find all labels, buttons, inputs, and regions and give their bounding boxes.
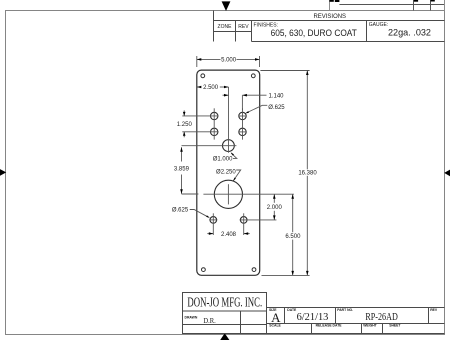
hole circle dia 1.000 (223, 140, 235, 152)
arrow 5.000 right (255, 58, 260, 61)
svg-text:Ø.625: Ø.625 (268, 105, 285, 111)
title block bottom line (183, 333, 445, 335)
corner hole bottom-right (252, 268, 256, 272)
extension 3.859 bottom (182, 193, 199, 195)
scale cell divider (311, 324, 313, 334)
dimension 6.500 line top (292, 194, 294, 232)
zone/rev header underline (214, 31, 252, 33)
leader dia 1.000 (231, 153, 237, 158)
horizontal centerline 1.000 (182, 145, 237, 147)
vertical centerline 2.500/1.000 (228, 87, 230, 153)
leader dia .625 upper (246, 105, 267, 113)
top margin fragment vertical c (430, 0, 432, 11)
upper-right hole pair bottom (239, 128, 246, 135)
dimension 2.408 line right (244, 233, 250, 235)
svg-text:RP-26AD: RP-26AD (365, 311, 397, 323)
upper-right hole pair top (239, 112, 246, 119)
drawn row underline (183, 324, 267, 326)
leader arrow dia .625 lower (206, 215, 210, 218)
title block row divider (267, 323, 445, 325)
plate outline (197, 70, 260, 275)
svg-text:2.000: 2.000 (267, 205, 283, 211)
arrow 2.408 left (209, 232, 214, 235)
svg-text:6.500: 6.500 (285, 234, 301, 240)
title block company box (183, 293, 267, 312)
svg-text:DRAWN: DRAWN (185, 315, 198, 319)
arrow 6.500 top (291, 194, 294, 199)
dimension 1.140 line right (242, 94, 266, 96)
rev/finishes divider (251, 21, 253, 42)
dimension 2.000 line top (273, 194, 275, 203)
svg-text:REVISIONS: REVISIONS (314, 13, 347, 20)
dimension 16.380 extension top (260, 70, 309, 72)
finishes/gauge divider (366, 21, 368, 42)
revisions header underline (214, 20, 445, 22)
leader dia .625 lower (190, 210, 209, 218)
arrow 2.500 right (224, 86, 229, 89)
centerline lower hole left (212, 213, 214, 235)
corner hole bottom-left (202, 268, 206, 272)
dimension 5.000 line left (197, 58, 221, 60)
svg-text:Ø1.000: Ø1.000 (213, 157, 233, 163)
svg-text:PART NO.: PART NO. (337, 308, 353, 312)
extension 2.000 bottom through lower right hole (240, 219, 277, 221)
arrow 2.408 right (244, 232, 249, 235)
size/date divider (284, 308, 286, 324)
center mark bottom (220, 333, 229, 340)
release date cell divider (361, 324, 363, 334)
date/part divider (335, 308, 337, 324)
dimension 2.408 line left (207, 233, 213, 235)
dimension 1.140 extension down (241, 95, 243, 110)
corner hole top-left (201, 74, 205, 78)
dimension 16.380 line bottom (306, 176, 308, 276)
corner hole top-right (251, 74, 255, 78)
zone/rev divider (235, 21, 237, 42)
svg-text:22ga. .032: 22ga. .032 (388, 28, 431, 38)
centerline upper-right pair (242, 108, 244, 139)
svg-text:REV: REV (430, 308, 438, 312)
arrow 16.380 top (306, 71, 309, 76)
cross tick right pair top (238, 115, 246, 117)
arrow 5.000 left (197, 58, 202, 61)
svg-text:Ø.625: Ø.625 (172, 208, 189, 214)
svg-text:2.408: 2.408 (221, 232, 237, 238)
top margin text stub c (414, 0, 418, 2)
svg-text:SHEET: SHEET (389, 324, 401, 328)
svg-text:GAUGE:: GAUGE: (369, 22, 388, 28)
weight cell divider (382, 324, 384, 334)
arrow 1.250 top outside (183, 110, 185, 116)
top margin fragment vertical a (329, 0, 331, 11)
top margin text stub a (329, 0, 333, 2)
top margin fragment line (339, 4, 444, 6)
svg-text:WEIGHT: WEIGHT (363, 324, 377, 328)
upper-left hole pair top (211, 112, 218, 119)
title block left column outline (182, 311, 184, 334)
leader dia 2.250 (233, 170, 240, 181)
svg-text:Ø2.250: Ø2.250 (216, 170, 236, 176)
svg-text:1.140: 1.140 (269, 93, 285, 99)
svg-text:1.250: 1.250 (177, 122, 193, 128)
svg-text:DATE: DATE (287, 308, 297, 312)
drawn cell divider (240, 311, 242, 334)
svg-text:2.500: 2.500 (203, 85, 219, 91)
leader arrow dia 2.250 (233, 178, 236, 182)
center mark right (444, 170, 450, 177)
svg-text:5.000: 5.000 (221, 58, 237, 64)
arrow 2.500 left (197, 86, 202, 89)
part/rev divider (428, 308, 430, 324)
centerline upper-left pair (213, 108, 215, 139)
svg-text:DON-JO MFG. INC.: DON-JO MFG. INC. (187, 295, 262, 310)
dimension 1.250 extension bottom (182, 131, 218, 133)
revisions table left edge (213, 11, 215, 42)
svg-text:6/21/13: 6/21/13 (297, 312, 329, 323)
title block left bottom rows right edge (266, 311, 268, 334)
dimension 2.500 line right (220, 86, 229, 88)
arrow 3.859 bottom (180, 189, 183, 194)
top margin text stub b (335, 0, 340, 2)
cross tick lower left (209, 219, 217, 221)
svg-text:SCALE: SCALE (269, 324, 281, 328)
centerline lower hole right (243, 213, 245, 235)
dimension 6.500 line bottom (292, 240, 294, 276)
vertical centerline 2.250 (227, 184, 229, 204)
svg-text:D.R.: D.R. (203, 316, 216, 325)
arrow 16.380 bottom (306, 271, 309, 276)
center mark left (0, 169, 6, 176)
arrow 3.859 top (180, 147, 183, 152)
dimension 1.140 stub left (223, 94, 229, 96)
top margin text stub d (431, 0, 435, 2)
svg-text:ZONE: ZONE (218, 24, 233, 30)
dimension 16.380 extension bottom (262, 274, 310, 276)
arrow 1.140 at hole extension (242, 94, 247, 97)
leader arrow dia .625 upper (245, 111, 249, 113)
dimension 5.000 extension right (259, 56, 261, 67)
dimension 3.859 line top (181, 147, 183, 161)
dimension 16.380 line top (306, 71, 308, 170)
dimension 2.500 line left (197, 86, 202, 88)
svg-text:605, 630, DURO COAT: 605, 630, DURO COAT (271, 28, 358, 38)
dimension 2.000 line bottom (273, 211, 275, 220)
horizontal centerline 2.250 / extension (203, 193, 294, 195)
arrow 1.250 bottom outside (183, 132, 185, 138)
top margin fragment vertical d (444, 0, 446, 11)
title block right top line (267, 307, 445, 309)
center mark top (222, 1, 231, 11)
lower hole right (240, 217, 247, 224)
arrow 6.500 bottom (291, 271, 294, 276)
dimension 5.000 line right (237, 58, 260, 60)
hole circle dia 2.250 (214, 180, 242, 208)
arrow 1.140 onto centerline (224, 94, 229, 97)
leader arrow dia 1.000 (231, 152, 234, 155)
svg-text:3.859: 3.859 (174, 166, 190, 172)
dimension 5.000 extension left (196, 56, 198, 67)
lower hole left (210, 217, 217, 224)
top margin fragment vertical b (413, 0, 415, 11)
upper-left hole pair bottom (211, 128, 218, 135)
svg-text:16.380: 16.380 (298, 171, 317, 177)
svg-text:REV: REV (238, 24, 249, 30)
svg-text:RELEASE DATE: RELEASE DATE (316, 324, 343, 328)
arrow 2.000 top (273, 194, 276, 199)
dimension 1.250 extension top (182, 115, 218, 117)
cross tick right pair bottom (238, 131, 246, 133)
dimension 3.859 line bottom (181, 175, 183, 194)
revisions table bottom line (252, 41, 445, 43)
arrow 2.000 bottom (273, 215, 276, 220)
